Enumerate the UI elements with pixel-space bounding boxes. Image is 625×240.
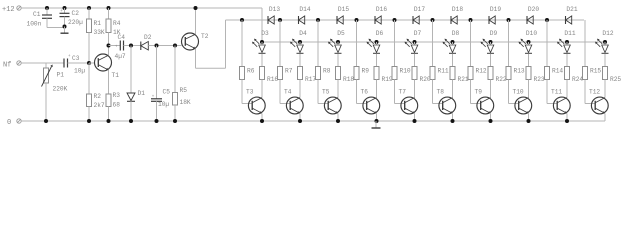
svg-text:R12: R12	[476, 68, 487, 75]
resistor R14	[545, 67, 564, 80]
resistor R12	[468, 67, 487, 80]
svg-text:C3: C3	[72, 55, 80, 62]
capacitor C5 10µ	[151, 46, 170, 124]
svg-text:220µ: 220µ	[68, 19, 83, 26]
LED D8	[443, 30, 460, 53]
svg-text:T9: T9	[475, 89, 483, 96]
svg-text:D6: D6	[376, 30, 384, 37]
node T3 emitter junction	[260, 119, 264, 123]
node diode chain tap 3	[316, 18, 320, 22]
resistor R15	[583, 67, 602, 80]
diode D20	[527, 6, 539, 24]
wire D3 cathode to R16	[261, 54, 263, 67]
transistor T5	[322, 89, 341, 114]
node D1 junction	[129, 44, 133, 48]
resistor R16	[260, 67, 279, 84]
svg-text:D2: D2	[144, 34, 152, 41]
svg-text:R6: R6	[247, 68, 255, 75]
svg-text:D10: D10	[526, 30, 537, 37]
node LED D10 anode	[527, 40, 531, 44]
svg-text:R21: R21	[458, 76, 469, 83]
svg-text:D20: D20	[528, 6, 539, 13]
wire R24 to T11 collector	[566, 80, 568, 98]
node T10 emitter junction	[527, 119, 531, 123]
svg-text:R5: R5	[180, 87, 188, 94]
node T4 emitter junction	[298, 119, 302, 123]
svg-text:T7: T7	[399, 89, 407, 96]
wire R13 to T10 base	[509, 80, 519, 104]
svg-text:R4: R4	[113, 20, 121, 27]
svg-text:68: 68	[113, 102, 121, 109]
transistor T11	[551, 89, 570, 114]
wire D12 cathode to R25	[604, 54, 606, 67]
diode D1	[127, 46, 145, 124]
wire ground rail	[21, 120, 605, 122]
svg-text:D15: D15	[338, 6, 349, 13]
wire R22 to T9 collector	[490, 80, 492, 98]
LED D4	[290, 30, 307, 53]
wire base tap stage 8	[508, 20, 510, 67]
resistor R20	[412, 67, 431, 84]
wire diode chain bus	[226, 19, 585, 21]
wire +12 LED anode bus	[262, 41, 605, 43]
wire base tap stage 5	[394, 20, 396, 67]
node T2 collector junction	[194, 6, 198, 10]
svg-text:D13: D13	[269, 6, 280, 13]
svg-text:R19: R19	[382, 76, 393, 83]
wire D6 cathode to R19	[376, 54, 378, 67]
wire R21 to T8 collector	[452, 80, 454, 98]
wire T3 emitter to ground rail	[261, 114, 263, 122]
resistor R6	[240, 67, 255, 80]
capacitor C2 220µ	[60, 6, 84, 27]
node diode chain tap 7	[469, 18, 473, 22]
wire base tap stage 10	[584, 20, 586, 67]
diode D16	[375, 6, 387, 24]
svg-text:D19: D19	[490, 6, 501, 13]
svg-text:18K: 18K	[180, 99, 191, 106]
wire R18 to T5 collector	[337, 80, 339, 98]
resistor R8	[316, 67, 331, 80]
transistor T8	[437, 89, 456, 114]
svg-text:C1: C1	[33, 11, 41, 18]
wire R20 to T7 collector	[414, 80, 416, 98]
svg-text:100n: 100n	[27, 21, 42, 28]
diode D2	[141, 34, 152, 50]
svg-text:D14: D14	[299, 6, 310, 13]
svg-text:R23: R23	[534, 76, 545, 83]
node diode chain tap 2	[278, 18, 282, 22]
wire R25 to T12 collector	[604, 80, 606, 98]
resistor R19	[374, 67, 393, 84]
resistor R2 2k7	[87, 63, 105, 123]
transistor T4	[284, 89, 303, 114]
svg-text:D16: D16	[376, 6, 387, 13]
resistor R4 1K	[106, 6, 121, 36]
wire C1 to ground node	[47, 27, 65, 29]
terminal NF input	[3, 61, 21, 70]
wire base tap stage 9	[546, 20, 548, 67]
resistor R7	[278, 67, 293, 80]
node LED D3 anode	[260, 40, 264, 44]
svg-text:2k7: 2k7	[94, 102, 105, 109]
resistor R23	[526, 67, 545, 84]
wire D2 to T2 base	[148, 45, 181, 47]
wire D5 cathode to R18	[337, 54, 339, 67]
wire base tap stage 1	[241, 20, 243, 67]
svg-text:4µ7: 4µ7	[115, 53, 126, 60]
svg-text:T4: T4	[284, 89, 292, 96]
svg-text:P1: P1	[57, 72, 65, 79]
svg-text:R1: R1	[94, 20, 102, 27]
transistor T10	[513, 89, 532, 114]
LED D7	[405, 30, 422, 53]
capacitor C1 100n	[27, 6, 53, 28]
node LED D4 anode	[298, 40, 302, 44]
transistor T9	[475, 89, 494, 114]
wire T5 emitter to ground rail	[337, 114, 339, 122]
svg-text:D17: D17	[414, 6, 425, 13]
wire T1 collector	[108, 46, 110, 56]
wire R23 to T10 collector	[528, 80, 530, 98]
node diode chain tap 5	[393, 18, 397, 22]
diode D14	[299, 6, 311, 24]
transistor T1	[89, 54, 119, 79]
LED D5	[328, 30, 345, 53]
svg-text:R8: R8	[323, 68, 331, 75]
node T1 base junction	[87, 61, 91, 65]
svg-text:D3: D3	[261, 30, 269, 37]
svg-text:C5: C5	[163, 89, 171, 96]
svg-text:R14: R14	[552, 68, 563, 75]
svg-text:R20: R20	[420, 76, 431, 83]
svg-text:Nf: Nf	[3, 62, 11, 70]
diode D21	[566, 6, 578, 24]
svg-text:10µ: 10µ	[74, 68, 85, 75]
svg-text:+12: +12	[2, 6, 15, 14]
resistor R25	[603, 67, 622, 84]
resistor R18	[336, 67, 355, 84]
node T11 emitter junction	[565, 119, 569, 123]
node LED D12 anode	[603, 40, 607, 44]
terminal +12	[2, 6, 21, 14]
svg-text:D4: D4	[299, 30, 307, 37]
wire R14 to T11 base	[547, 80, 557, 104]
LED D10	[519, 30, 538, 53]
wire R6 to T3 base	[242, 80, 252, 104]
wire T7 emitter to ground rail	[414, 114, 416, 122]
wire R16 to T3 collector	[261, 80, 263, 98]
wire R10 to T7 base	[395, 80, 405, 104]
capacitor C3 10µ	[64, 55, 89, 75]
svg-text:R18: R18	[343, 76, 354, 83]
svg-text:D8: D8	[452, 30, 460, 37]
node T7 emitter junction	[413, 119, 417, 123]
LED D12	[595, 30, 614, 53]
wire +12 top rail	[21, 7, 262, 9]
wire T6 emitter to ground rail	[376, 114, 378, 122]
ground symbol on ground rail	[372, 121, 381, 128]
resistor R21	[450, 67, 469, 84]
wire R17 to T4 collector	[299, 80, 301, 98]
resistor R3 68	[106, 92, 120, 123]
svg-text:R22: R22	[496, 76, 507, 83]
node LED D7 anode	[413, 40, 417, 44]
node T6 emitter junction	[375, 119, 379, 123]
diode D13	[268, 6, 280, 24]
LED D3	[252, 30, 269, 53]
resistor R10	[392, 67, 411, 80]
wire T12 emitter to ground rail	[604, 114, 606, 122]
wire NF input to C3	[21, 62, 64, 64]
svg-text:R11: R11	[438, 68, 449, 75]
wire R4 to T1 collector node	[108, 33, 110, 46]
svg-text:33K: 33K	[94, 29, 105, 36]
wire T11 emitter to ground rail	[566, 114, 568, 122]
diode D15	[337, 6, 349, 24]
svg-text:R2: R2	[94, 93, 102, 100]
LED D11	[557, 30, 576, 53]
svg-text:D11: D11	[564, 30, 575, 37]
svg-text:T2: T2	[201, 33, 209, 40]
svg-text:220K: 220K	[53, 86, 68, 93]
wire R12 to T9 base	[471, 80, 481, 104]
wire R1 to T1 base node	[88, 33, 90, 64]
node T5 emitter junction	[336, 119, 340, 123]
svg-text:R24: R24	[572, 76, 583, 83]
wire C4 to D1 node	[124, 45, 141, 47]
svg-text:R13: R13	[514, 68, 525, 75]
node diode chain tap 8	[507, 18, 511, 22]
wire base tap stage 3	[317, 20, 319, 67]
transistor T2	[182, 33, 209, 50]
svg-text:R17: R17	[305, 76, 316, 83]
transistor T12	[589, 89, 608, 114]
svg-text:T5: T5	[322, 89, 330, 96]
wire base tap stage 6	[432, 20, 434, 67]
wire D8 cathode to R21	[452, 54, 454, 67]
wire T1 emitter to R3	[108, 70, 110, 94]
node diode chain tap 1	[240, 18, 244, 22]
transistor T7	[399, 89, 418, 114]
svg-text:D12: D12	[602, 30, 613, 37]
wire base tap stage 2	[279, 20, 281, 67]
svg-text:T1: T1	[112, 72, 120, 79]
node T8 emitter junction	[451, 119, 455, 123]
wire T8 emitter to ground rail	[452, 114, 454, 122]
node diode chain tap 9	[545, 18, 549, 22]
diode D18	[451, 6, 463, 24]
terminal 0 (ground)	[7, 119, 21, 127]
LED D9	[481, 30, 498, 53]
wire base tap stage 4	[356, 20, 358, 67]
svg-text:T8: T8	[437, 89, 445, 96]
svg-text:R10: R10	[400, 68, 411, 75]
svg-text:T11: T11	[551, 89, 562, 96]
resistor R5 18K	[173, 46, 191, 124]
transistor T3	[246, 89, 265, 114]
svg-text:D5: D5	[337, 30, 345, 37]
wire T2 collector to +12 rail	[195, 8, 197, 34]
node LED D6 anode	[375, 40, 379, 44]
node LED D8 anode	[451, 40, 455, 44]
wire T9 emitter to ground rail	[490, 114, 492, 122]
wire R9 to T6 base	[357, 80, 367, 104]
resistor R1 33K	[87, 6, 105, 36]
svg-text:0: 0	[7, 119, 11, 127]
resistor R11	[430, 67, 449, 80]
node C5 junction	[155, 44, 159, 48]
svg-text:C4: C4	[118, 34, 126, 41]
node diode chain tap 4	[355, 18, 359, 22]
diode D19	[489, 6, 501, 24]
resistor R9	[354, 67, 369, 80]
wire T10 emitter to ground rail	[528, 114, 530, 122]
wire D9 cathode to R22	[490, 54, 492, 67]
svg-text:R9: R9	[362, 68, 370, 75]
resistor R24	[565, 67, 584, 84]
svg-text:D18: D18	[452, 6, 463, 13]
node P1 ground junction	[44, 119, 48, 123]
wire R7 to T4 base	[280, 80, 290, 104]
wire R8 to T5 base	[318, 80, 328, 104]
svg-text:R16: R16	[267, 76, 278, 83]
wire R15 to T12 base	[585, 80, 595, 104]
svg-text:10µ: 10µ	[158, 101, 169, 108]
svg-text:R3: R3	[113, 92, 121, 99]
svg-text:R25: R25	[610, 76, 621, 83]
resistor R17	[298, 67, 317, 84]
resistor R22	[488, 67, 507, 84]
wire +12 rail drop to LED bus	[261, 8, 263, 42]
node T1 collector junction	[107, 44, 111, 48]
svg-text:D1: D1	[138, 90, 146, 97]
wire T2 emitter to diode chain bus	[196, 20, 226, 68]
wire T1 collector node to C4	[109, 45, 121, 47]
transistor T6	[361, 89, 380, 114]
potentiometer P1 220K	[42, 63, 68, 121]
wire D11 cathode to R24	[566, 54, 568, 67]
node diode chain tap 6	[431, 18, 435, 22]
svg-text:R15: R15	[590, 68, 601, 75]
svg-text:T12: T12	[589, 89, 600, 96]
ground symbol below C2	[61, 27, 69, 34]
svg-text:D9: D9	[490, 30, 498, 37]
svg-text:T3: T3	[246, 89, 254, 96]
diode D17	[413, 6, 425, 24]
capacitor C4 4µ7	[115, 34, 126, 60]
wire D4 cathode to R17	[299, 54, 301, 67]
node LED D11 anode	[565, 40, 569, 44]
wire D10 cathode to R23	[528, 54, 530, 67]
svg-text:D21: D21	[566, 6, 577, 13]
node R5 junction	[173, 44, 177, 48]
wire D7 cathode to R20	[414, 54, 416, 67]
node C2 ground junction	[63, 25, 67, 29]
svg-text:C2: C2	[72, 10, 80, 17]
node T9 emitter junction	[489, 119, 493, 123]
wire R11 to T8 base	[433, 80, 443, 104]
node LED D5 anode	[336, 40, 340, 44]
wire base tap stage 7	[470, 20, 472, 67]
LED D6	[367, 30, 384, 53]
svg-text:T10: T10	[513, 89, 524, 96]
svg-text:R7: R7	[285, 68, 293, 75]
resistor R13	[506, 67, 525, 80]
node LED D9 anode	[489, 40, 493, 44]
svg-text:D7: D7	[414, 30, 422, 37]
wire T4 emitter to ground rail	[299, 114, 301, 122]
wire R19 to T6 collector	[376, 80, 378, 98]
svg-text:T6: T6	[361, 89, 369, 96]
